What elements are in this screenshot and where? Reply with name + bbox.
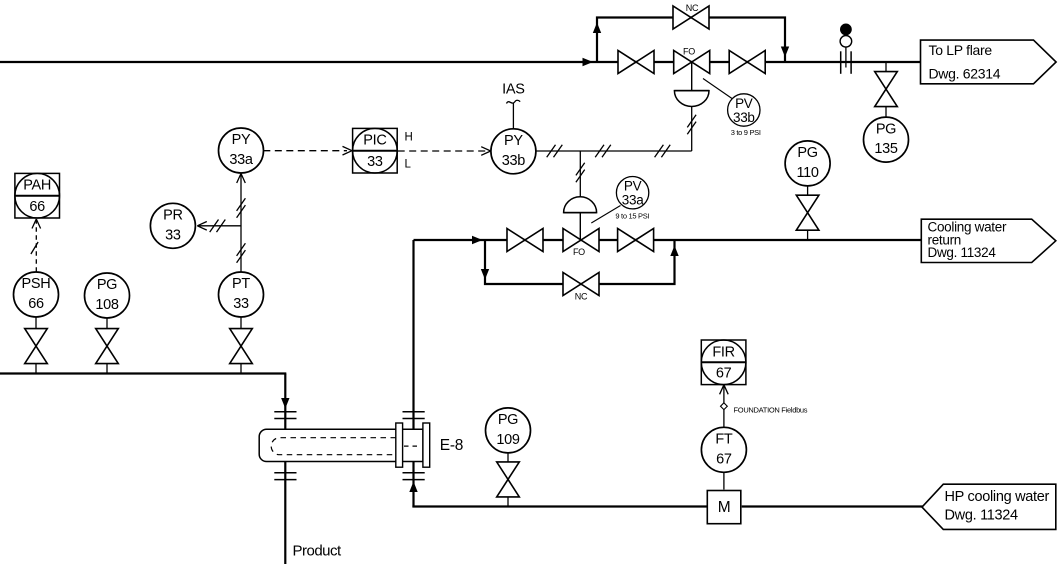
svg-text:NC: NC: [686, 3, 699, 13]
svg-text:PV: PV: [624, 179, 642, 194]
svg-text:33b: 33b: [502, 153, 526, 169]
svg-text:Dwg. 11324: Dwg. 11324: [928, 245, 997, 260]
svg-text:PG: PG: [797, 145, 817, 161]
svg-text:67: 67: [716, 366, 732, 382]
svg-text:NC: NC: [575, 291, 588, 301]
svg-text:66: 66: [29, 199, 45, 215]
svg-text:PG: PG: [876, 121, 896, 137]
svg-text:135: 135: [874, 141, 898, 157]
svg-text:PT: PT: [232, 276, 250, 292]
svg-text:PSH: PSH: [22, 276, 51, 292]
svg-text:Product: Product: [293, 543, 343, 560]
svg-text:PAH: PAH: [23, 178, 51, 194]
svg-text:PIC: PIC: [363, 133, 386, 149]
svg-text:9 to 15 PSI: 9 to 15 PSI: [615, 212, 649, 221]
svg-text:E-8: E-8: [440, 437, 463, 454]
svg-text:Dwg. 62314: Dwg. 62314: [929, 66, 1001, 82]
svg-text:HP cooling water: HP cooling water: [945, 489, 1050, 505]
svg-text:PG: PG: [97, 277, 117, 293]
svg-text:33a: 33a: [622, 193, 644, 208]
svg-text:33a: 33a: [229, 152, 254, 168]
svg-text:108: 108: [95, 297, 119, 313]
svg-text:To LP flare: To LP flare: [929, 42, 993, 58]
svg-text:Dwg. 11324: Dwg. 11324: [945, 508, 1019, 524]
svg-text:M: M: [718, 499, 731, 516]
svg-text:110: 110: [796, 165, 818, 181]
svg-text:FO: FO: [573, 247, 585, 257]
svg-text:H: H: [405, 131, 413, 143]
svg-text:IAS: IAS: [502, 82, 524, 98]
svg-text:33: 33: [367, 154, 383, 170]
svg-text:FO: FO: [683, 47, 695, 57]
svg-text:PG: PG: [498, 412, 518, 428]
svg-text:66: 66: [28, 296, 44, 312]
svg-text:FIR: FIR: [712, 344, 734, 360]
svg-text:33: 33: [165, 227, 181, 243]
svg-text:FOUNDATION Fieldbus: FOUNDATION Fieldbus: [734, 406, 808, 415]
svg-text:L: L: [405, 158, 412, 170]
svg-text:PY: PY: [504, 133, 523, 149]
svg-text:67: 67: [716, 451, 732, 467]
svg-text:FT: FT: [715, 432, 733, 448]
svg-text:PV: PV: [735, 96, 753, 111]
svg-text:109: 109: [496, 432, 520, 448]
svg-text:PR: PR: [163, 208, 183, 224]
svg-text:PY: PY: [232, 132, 251, 148]
svg-text:33: 33: [233, 296, 249, 312]
svg-text:33b: 33b: [733, 110, 755, 125]
svg-text:3 to 9 PSI: 3 to 9 PSI: [731, 128, 761, 137]
